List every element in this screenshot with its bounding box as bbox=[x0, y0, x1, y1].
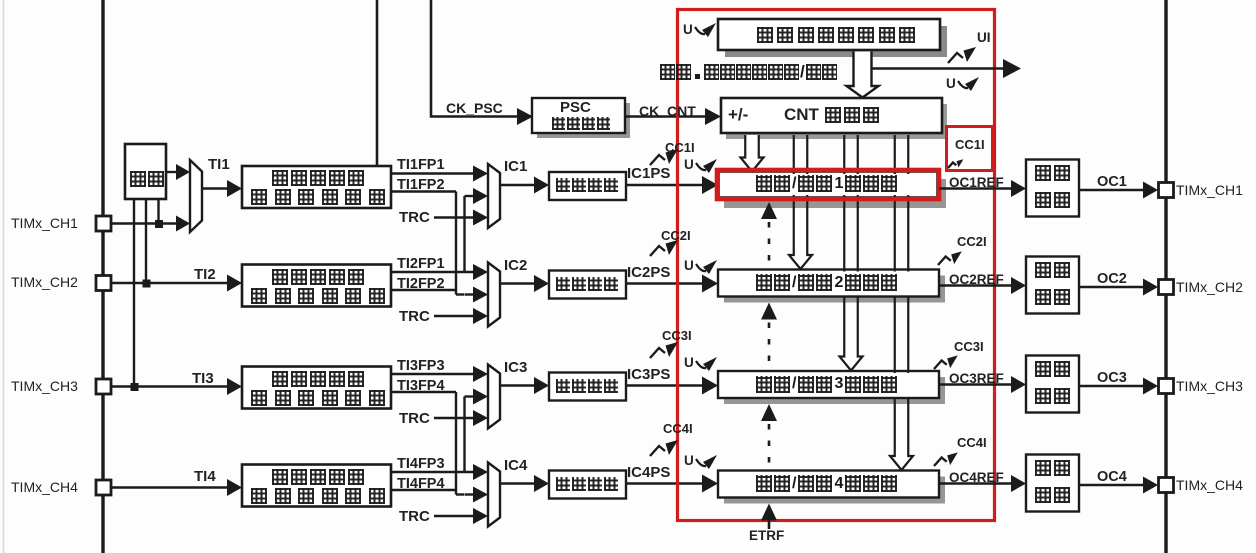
text xor box label bbox=[130, 171, 164, 187]
label U top bbox=[683, 23, 693, 37]
mux IC3 selector bbox=[488, 365, 500, 429]
event arrow CC3I right bbox=[934, 361, 947, 370]
red highlight CC1I bbox=[947, 127, 993, 171]
text output control 1 line2 bbox=[1035, 192, 1070, 208]
label TRC row 3 bbox=[399, 411, 430, 427]
label CC1I left bbox=[665, 141, 695, 155]
capture/compare register 3 box bbox=[724, 377, 945, 404]
label U row 3 bbox=[684, 356, 694, 370]
label IC2PS bbox=[627, 265, 670, 281]
input filter box row 2 bbox=[242, 265, 391, 307]
label ETRF bbox=[749, 529, 784, 543]
text input filter row 3 line1 bbox=[272, 371, 364, 387]
label TIMx_CH4 left bbox=[11, 480, 78, 495]
faint page border left bbox=[3, 0, 5, 553]
text prescaler row 3 bbox=[556, 379, 618, 393]
terminal square TIMx_CH2 left bbox=[96, 276, 111, 291]
xor gate box bbox=[125, 144, 166, 199]
wire TRC row 3 bbox=[434, 417, 473, 419]
label OC3 bbox=[1097, 371, 1127, 386]
label OC2REF bbox=[949, 273, 1004, 287]
wire OC4 bbox=[1079, 484, 1144, 486]
hollow arrow CNT to capture register 1 bbox=[741, 135, 764, 172]
output control box 1 bbox=[1026, 160, 1079, 217]
wire CK_CNT bbox=[625, 115, 707, 117]
label U row 2 bbox=[684, 259, 694, 273]
wire IC4 to prescaler bbox=[500, 482, 535, 484]
text CNT counter bbox=[825, 107, 879, 123]
label U row 4 bbox=[684, 454, 694, 468]
wire IC3PS to capture register bbox=[626, 384, 704, 386]
wire IC1 to prescaler bbox=[500, 184, 535, 186]
CNT counter box bbox=[726, 104, 947, 139]
label TI3FP3 bbox=[397, 359, 445, 374]
auto-reload register box bbox=[725, 26, 947, 57]
wire TRC row 1 bbox=[434, 216, 473, 218]
wire OC2REF bbox=[939, 284, 1012, 286]
hollow arrow CNT to capture register 3 bbox=[844, 135, 858, 304]
label TI3FP4 bbox=[397, 379, 445, 394]
prescaler box row 2 bbox=[549, 271, 626, 299]
label TIMx_CH3 right bbox=[1176, 379, 1243, 394]
wire IC2 to prescaler bbox=[500, 282, 535, 284]
wire dashed segment 1 bbox=[768, 222, 771, 269]
wire OC2 bbox=[1079, 286, 1144, 288]
left bus wire TIMx_CHx bbox=[101, 0, 104, 553]
label TIMx_CH1 right bbox=[1176, 183, 1243, 198]
label TRC row 4 bbox=[399, 509, 430, 525]
wire IC4PS to capture register bbox=[626, 482, 704, 484]
label PSC bbox=[560, 100, 591, 116]
label TI4 bbox=[194, 469, 216, 485]
text input filter row 4 line1 bbox=[272, 469, 364, 485]
wire OC1REF bbox=[939, 187, 1012, 189]
label U row 1 bbox=[684, 158, 694, 172]
label UI bbox=[977, 31, 991, 45]
terminal square TIMx_CH3 right bbox=[1159, 379, 1174, 394]
arrowhead ETRF into register 4 bbox=[761, 504, 777, 521]
wire TRC row 4 bbox=[434, 515, 473, 517]
label CC1I right bbox=[955, 138, 985, 152]
event arrow CC2I right bbox=[938, 257, 951, 266]
text auto-reload register bbox=[757, 27, 915, 43]
capture/compare register 4 box bbox=[724, 477, 945, 504]
label U right bbox=[946, 77, 956, 91]
right bus wire bbox=[1164, 0, 1167, 553]
mux IC2 selector bbox=[488, 263, 500, 327]
wire mux input 2 stub row 1 bbox=[465, 195, 474, 197]
prescaler box row 1 bbox=[549, 172, 626, 200]
text output control 3 line1 bbox=[1035, 361, 1070, 377]
text prescaler row 4 bbox=[556, 477, 618, 491]
wire TI2 from CH2 square bbox=[111, 282, 228, 284]
text output control 4 line1 bbox=[1035, 460, 1070, 476]
label TI4FP3 bbox=[397, 457, 445, 472]
text capture/compare register 1 bbox=[756, 175, 897, 192]
red highlight frame main bbox=[678, 10, 995, 521]
label TI1 bbox=[208, 157, 230, 173]
output control box 4 bbox=[1026, 455, 1079, 512]
event arrow CC4I right bbox=[934, 458, 947, 467]
terminal square TIMx_CH3 left bbox=[96, 379, 111, 394]
wire TI1FP2 cross-down bbox=[391, 190, 456, 192]
wire TI2FP2 stub bbox=[391, 289, 456, 291]
terminal square TIMx_CH4 right bbox=[1159, 478, 1174, 493]
wire xor input from CH2 bbox=[145, 199, 147, 283]
event arrow U top (auto-reload) bbox=[695, 27, 705, 34]
output control box 2 bbox=[1026, 257, 1079, 314]
event arrow CC2I left bbox=[650, 246, 665, 256]
event arrow U right of frame bbox=[958, 81, 968, 88]
label IC1PS bbox=[627, 166, 670, 182]
label IC2 bbox=[504, 258, 527, 274]
label TIMx_CH1 left bbox=[11, 216, 78, 231]
text output control 2 line2 bbox=[1035, 289, 1070, 305]
capture/compare register 2 box bbox=[724, 276, 945, 303]
hollow arrow auto-reload to CNT bbox=[847, 52, 879, 98]
wire TI3FP4 cross-down bbox=[391, 391, 456, 393]
event arrow U row 4 bbox=[696, 459, 706, 466]
text input filter row 1 line2 bbox=[251, 189, 385, 205]
terminal square TIMx_CH1 left bbox=[96, 216, 111, 231]
wire dashed segment 3 bbox=[768, 424, 771, 470]
wire CK_PSC horizontal bbox=[430, 115, 519, 117]
label TI2 bbox=[194, 267, 216, 283]
label IC3 bbox=[504, 360, 527, 376]
label CC2I right bbox=[957, 235, 987, 249]
wire TI4FP3 cross-up bbox=[463, 397, 465, 473]
event arrow CC4I left bbox=[650, 446, 665, 456]
wire xor input from CH1 bbox=[157, 199, 159, 224]
wire mux input 2 stub row 3 bbox=[465, 395, 474, 397]
label IC3PS bbox=[627, 367, 670, 383]
label IC1 bbox=[504, 159, 527, 175]
wire mux input 2 stub row 4 bbox=[465, 493, 474, 495]
label OC4REF bbox=[949, 471, 1004, 485]
text capture/compare register 4 bbox=[756, 475, 897, 492]
wire TI4FP3 bbox=[391, 471, 473, 473]
wire dashed segment 2 bbox=[768, 323, 771, 371]
wire TI4 from CH4 square bbox=[111, 486, 228, 488]
wire IC1PS to capture register bbox=[626, 184, 704, 186]
label IC4 bbox=[504, 458, 527, 474]
wire TI1 mux to input filter 1 bbox=[202, 187, 228, 189]
label CK_CNT bbox=[639, 104, 696, 119]
text stop clear up/down bbox=[660, 63, 837, 80]
wire OC3REF bbox=[939, 383, 1012, 385]
wire IC3 to prescaler bbox=[500, 384, 535, 386]
label TI2FP1 bbox=[397, 257, 445, 272]
label TIMx_CH2 left bbox=[11, 275, 78, 290]
label OC1 bbox=[1097, 175, 1127, 190]
wire TRC row 2 bbox=[434, 315, 473, 317]
prescaler box row 3 bbox=[549, 373, 626, 401]
text output control 3 line2 bbox=[1035, 388, 1070, 404]
label OC2 bbox=[1097, 272, 1127, 287]
wire OC1 bbox=[1079, 189, 1144, 191]
wire ETRF solid bottom bbox=[768, 520, 771, 530]
text capture/compare register 3 bbox=[756, 376, 897, 393]
label TI3 bbox=[192, 371, 214, 387]
arrowhead ETRF into register 1 bbox=[761, 202, 777, 219]
event arrow U row 1 bbox=[696, 163, 706, 170]
label TI1FP2 bbox=[397, 178, 445, 193]
text output control 1 line1 bbox=[1035, 165, 1070, 181]
label TRC row 1 bbox=[399, 210, 430, 226]
wire CH1 to mux bbox=[111, 222, 177, 224]
event arrow CC3I left bbox=[650, 348, 665, 358]
text input filter row 1 line1 bbox=[272, 170, 364, 186]
terminal square TIMx_CH4 left bbox=[96, 480, 111, 495]
label TRC row 2 bbox=[399, 309, 430, 325]
label CC2I left bbox=[661, 229, 691, 243]
wire CK_PSC vertical bbox=[430, 0, 433, 118]
label TI2FP2 bbox=[397, 277, 445, 292]
wire IC2PS to capture register bbox=[626, 282, 704, 284]
label CC4I left bbox=[663, 422, 693, 436]
PSC prescaler box bbox=[537, 103, 630, 138]
mux TI1 selector bbox=[190, 160, 202, 232]
hollow arrow CNT to capture register 2 bbox=[794, 135, 808, 208]
wire xor output to mux bbox=[166, 171, 177, 173]
label TIMx_CH2 right bbox=[1176, 280, 1243, 295]
hollow arrow CNT to capture register 4 bbox=[895, 135, 909, 406]
label TIMx_CH4 right bbox=[1176, 478, 1243, 493]
input filter box row 1 bbox=[242, 166, 391, 208]
label IC4PS bbox=[627, 465, 670, 481]
arrowhead ETRF into register 3 bbox=[761, 404, 777, 421]
text input filter row 2 line1 bbox=[272, 269, 364, 285]
terminal square TIMx_CH1 right bbox=[1159, 183, 1174, 198]
text PSC prescaler line2 bbox=[552, 117, 610, 130]
label OC1REF bbox=[949, 176, 1004, 190]
input filter box row 3 bbox=[242, 367, 391, 409]
event arrow U row 3 bbox=[696, 361, 706, 368]
label TI1FP1 bbox=[397, 158, 445, 173]
text output control 2 line1 bbox=[1035, 262, 1070, 278]
label CC3I right bbox=[954, 340, 984, 354]
label CC3I left bbox=[662, 329, 692, 343]
wire update event out bbox=[872, 67, 1005, 70]
label TI4FP4 bbox=[397, 477, 445, 492]
wire TI2FP1 cross-up bbox=[463, 196, 465, 272]
wire TI3FP3 bbox=[391, 373, 473, 375]
wire mux input 2 stub row 2 bbox=[465, 293, 474, 295]
text input filter row 3 line2 bbox=[251, 390, 385, 406]
wire xor input from CH3 bbox=[133, 199, 135, 387]
event arrow CC1I right bbox=[948, 163, 956, 169]
terminal square TIMx_CH2 right bbox=[1159, 280, 1174, 295]
text prescaler row 2 bbox=[556, 277, 618, 291]
mux IC4 selector bbox=[488, 463, 500, 527]
wire TI1FP1 bbox=[391, 172, 473, 174]
label +/- bbox=[728, 106, 748, 124]
text input filter row 4 line2 bbox=[251, 488, 385, 504]
red highlight register 1 bbox=[717, 170, 939, 199]
output control box 3 bbox=[1026, 356, 1079, 413]
text capture/compare register 2 bbox=[756, 274, 897, 291]
wire TI2FP1 bbox=[391, 271, 473, 273]
label TIMx_CH3 left bbox=[11, 379, 78, 394]
label CC4I right bbox=[957, 436, 987, 450]
label OC3REF bbox=[949, 372, 1004, 386]
mux IC1 selector bbox=[488, 164, 500, 228]
text output control 4 line2 bbox=[1035, 487, 1070, 503]
wire vertical to input filter 1 bbox=[376, 0, 379, 167]
prescaler box row 4 bbox=[549, 471, 626, 499]
event arrow UI bbox=[948, 53, 963, 63]
text input filter row 2 line2 bbox=[251, 288, 385, 304]
label CNT bbox=[784, 106, 819, 124]
label CK_PSC bbox=[446, 101, 503, 116]
event arrow CC1I left bbox=[650, 155, 665, 165]
text prescaler row 1 bbox=[556, 178, 618, 192]
wire TI4FP4 stub bbox=[391, 489, 456, 491]
wire OC3 bbox=[1079, 385, 1144, 387]
wire TI3 from CH3 square bbox=[111, 385, 228, 387]
wire OC4REF bbox=[939, 482, 1012, 484]
arrowhead ETRF into register 2 bbox=[761, 303, 777, 320]
capture/compare register 1 box bbox=[724, 179, 946, 208]
label OC4 bbox=[1097, 470, 1127, 485]
input filter box row 4 bbox=[242, 465, 391, 507]
event arrow U row 2 bbox=[696, 264, 706, 271]
